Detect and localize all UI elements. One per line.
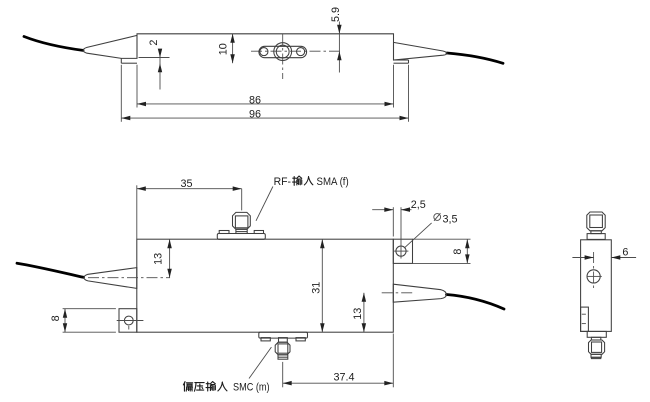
svg-text:35: 35: [180, 178, 192, 190]
svg-text:13: 13: [352, 308, 364, 320]
svg-text:8: 8: [50, 315, 62, 321]
svg-text:SMC (m): SMC (m): [233, 382, 270, 394]
svg-text:6: 6: [622, 246, 628, 258]
svg-text:86: 86: [249, 94, 261, 106]
svg-text:SMA (f): SMA (f): [317, 176, 349, 188]
svg-text:8: 8: [452, 249, 464, 255]
svg-text:13: 13: [152, 253, 164, 265]
svg-text:5.9: 5.9: [330, 7, 342, 22]
svg-text:37.4: 37.4: [333, 372, 354, 384]
svg-text:10: 10: [218, 43, 230, 55]
svg-text:3,5: 3,5: [443, 214, 458, 226]
svg-text:2: 2: [148, 40, 160, 46]
svg-text:31: 31: [311, 282, 323, 294]
svg-text:2,5: 2,5: [411, 199, 426, 211]
svg-text:96: 96: [249, 109, 261, 121]
svg-text:RF-: RF-: [274, 176, 292, 188]
